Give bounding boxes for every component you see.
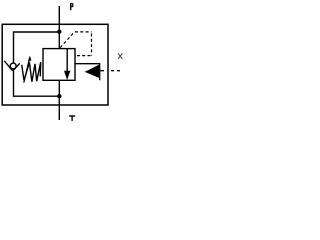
main valve envelope square — [43, 49, 75, 81]
flow arrowhead pointing down — [64, 71, 70, 80]
node junction dot top — [57, 30, 61, 34]
flow arrow line inside square — [66, 49, 68, 71]
pilot line dashed horizontal to square right side — [77, 55, 91, 57]
check valve seat right line — [13, 63, 20, 71]
wire inner bypass line (below check valve, bottom) — [14, 71, 60, 96]
port X dashed line first segment — [100, 70, 104, 72]
check valve ball — [10, 63, 16, 69]
node junction dot bottom — [57, 94, 61, 98]
port X dash 1 — [111, 70, 114, 72]
pilot poppet filled triangle pointing left — [85, 65, 100, 79]
wire inner bypass line (top, left) down to check valve — [14, 32, 60, 63]
wire P vertical line — [58, 6, 60, 49]
spring zigzag — [22, 62, 41, 82]
pilot line dashed diagonal from square top — [60, 32, 74, 48]
port P label — [71, 3, 73, 10]
valve body envelope (outer box) — [2, 24, 108, 105]
pilot valve box — [75, 64, 100, 81]
check valve seat left line — [4, 61, 13, 71]
port X label — [118, 53, 122, 59]
spring adjust arrow shaft — [24, 60, 30, 83]
pilot line dashed vertical right — [91, 34, 93, 56]
port X dash 2 — [117, 70, 120, 72]
pilot line dashed horizontal top — [75, 31, 92, 33]
port T label — [69, 116, 75, 121]
spring adjust arrowhead — [28, 56, 32, 62]
wire T vertical line below square — [58, 81, 60, 121]
